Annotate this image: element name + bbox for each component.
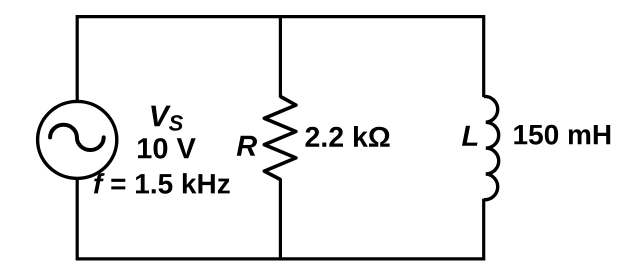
wire: bottom node (source - to R bottom and L bottom) <box>77 257 484 260</box>
wire: source top lead <box>76 15 79 102</box>
wire: inductor branch top lead <box>482 15 485 97</box>
label V_S (source name) <box>151 106 171 127</box>
label 150 mH (inductor value) <box>514 125 610 145</box>
wire: resistor branch bottom lead <box>279 179 282 261</box>
wire: inductor branch bottom lead <box>482 199 485 261</box>
AC source sine symbol <box>50 125 104 150</box>
wire: source bottom lead <box>76 179 79 261</box>
label 10 V (source voltage) <box>138 138 196 159</box>
label 2.2 kOhm (resistor value) <box>306 126 390 147</box>
label V_S subscript S <box>169 115 183 131</box>
label L (inductor designator) <box>462 126 478 146</box>
AC voltage source VS: circle <box>38 101 117 178</box>
label f = 1.5 kHz (source frequency) <box>94 173 230 194</box>
wire: top node (source + to R top and L top) <box>77 15 484 18</box>
label R (resistor designator) <box>237 136 257 156</box>
inductor L body (4 coil arcs) <box>484 96 499 199</box>
resistor R body (zigzag) <box>264 97 296 180</box>
wire: resistor branch top lead <box>279 15 282 98</box>
